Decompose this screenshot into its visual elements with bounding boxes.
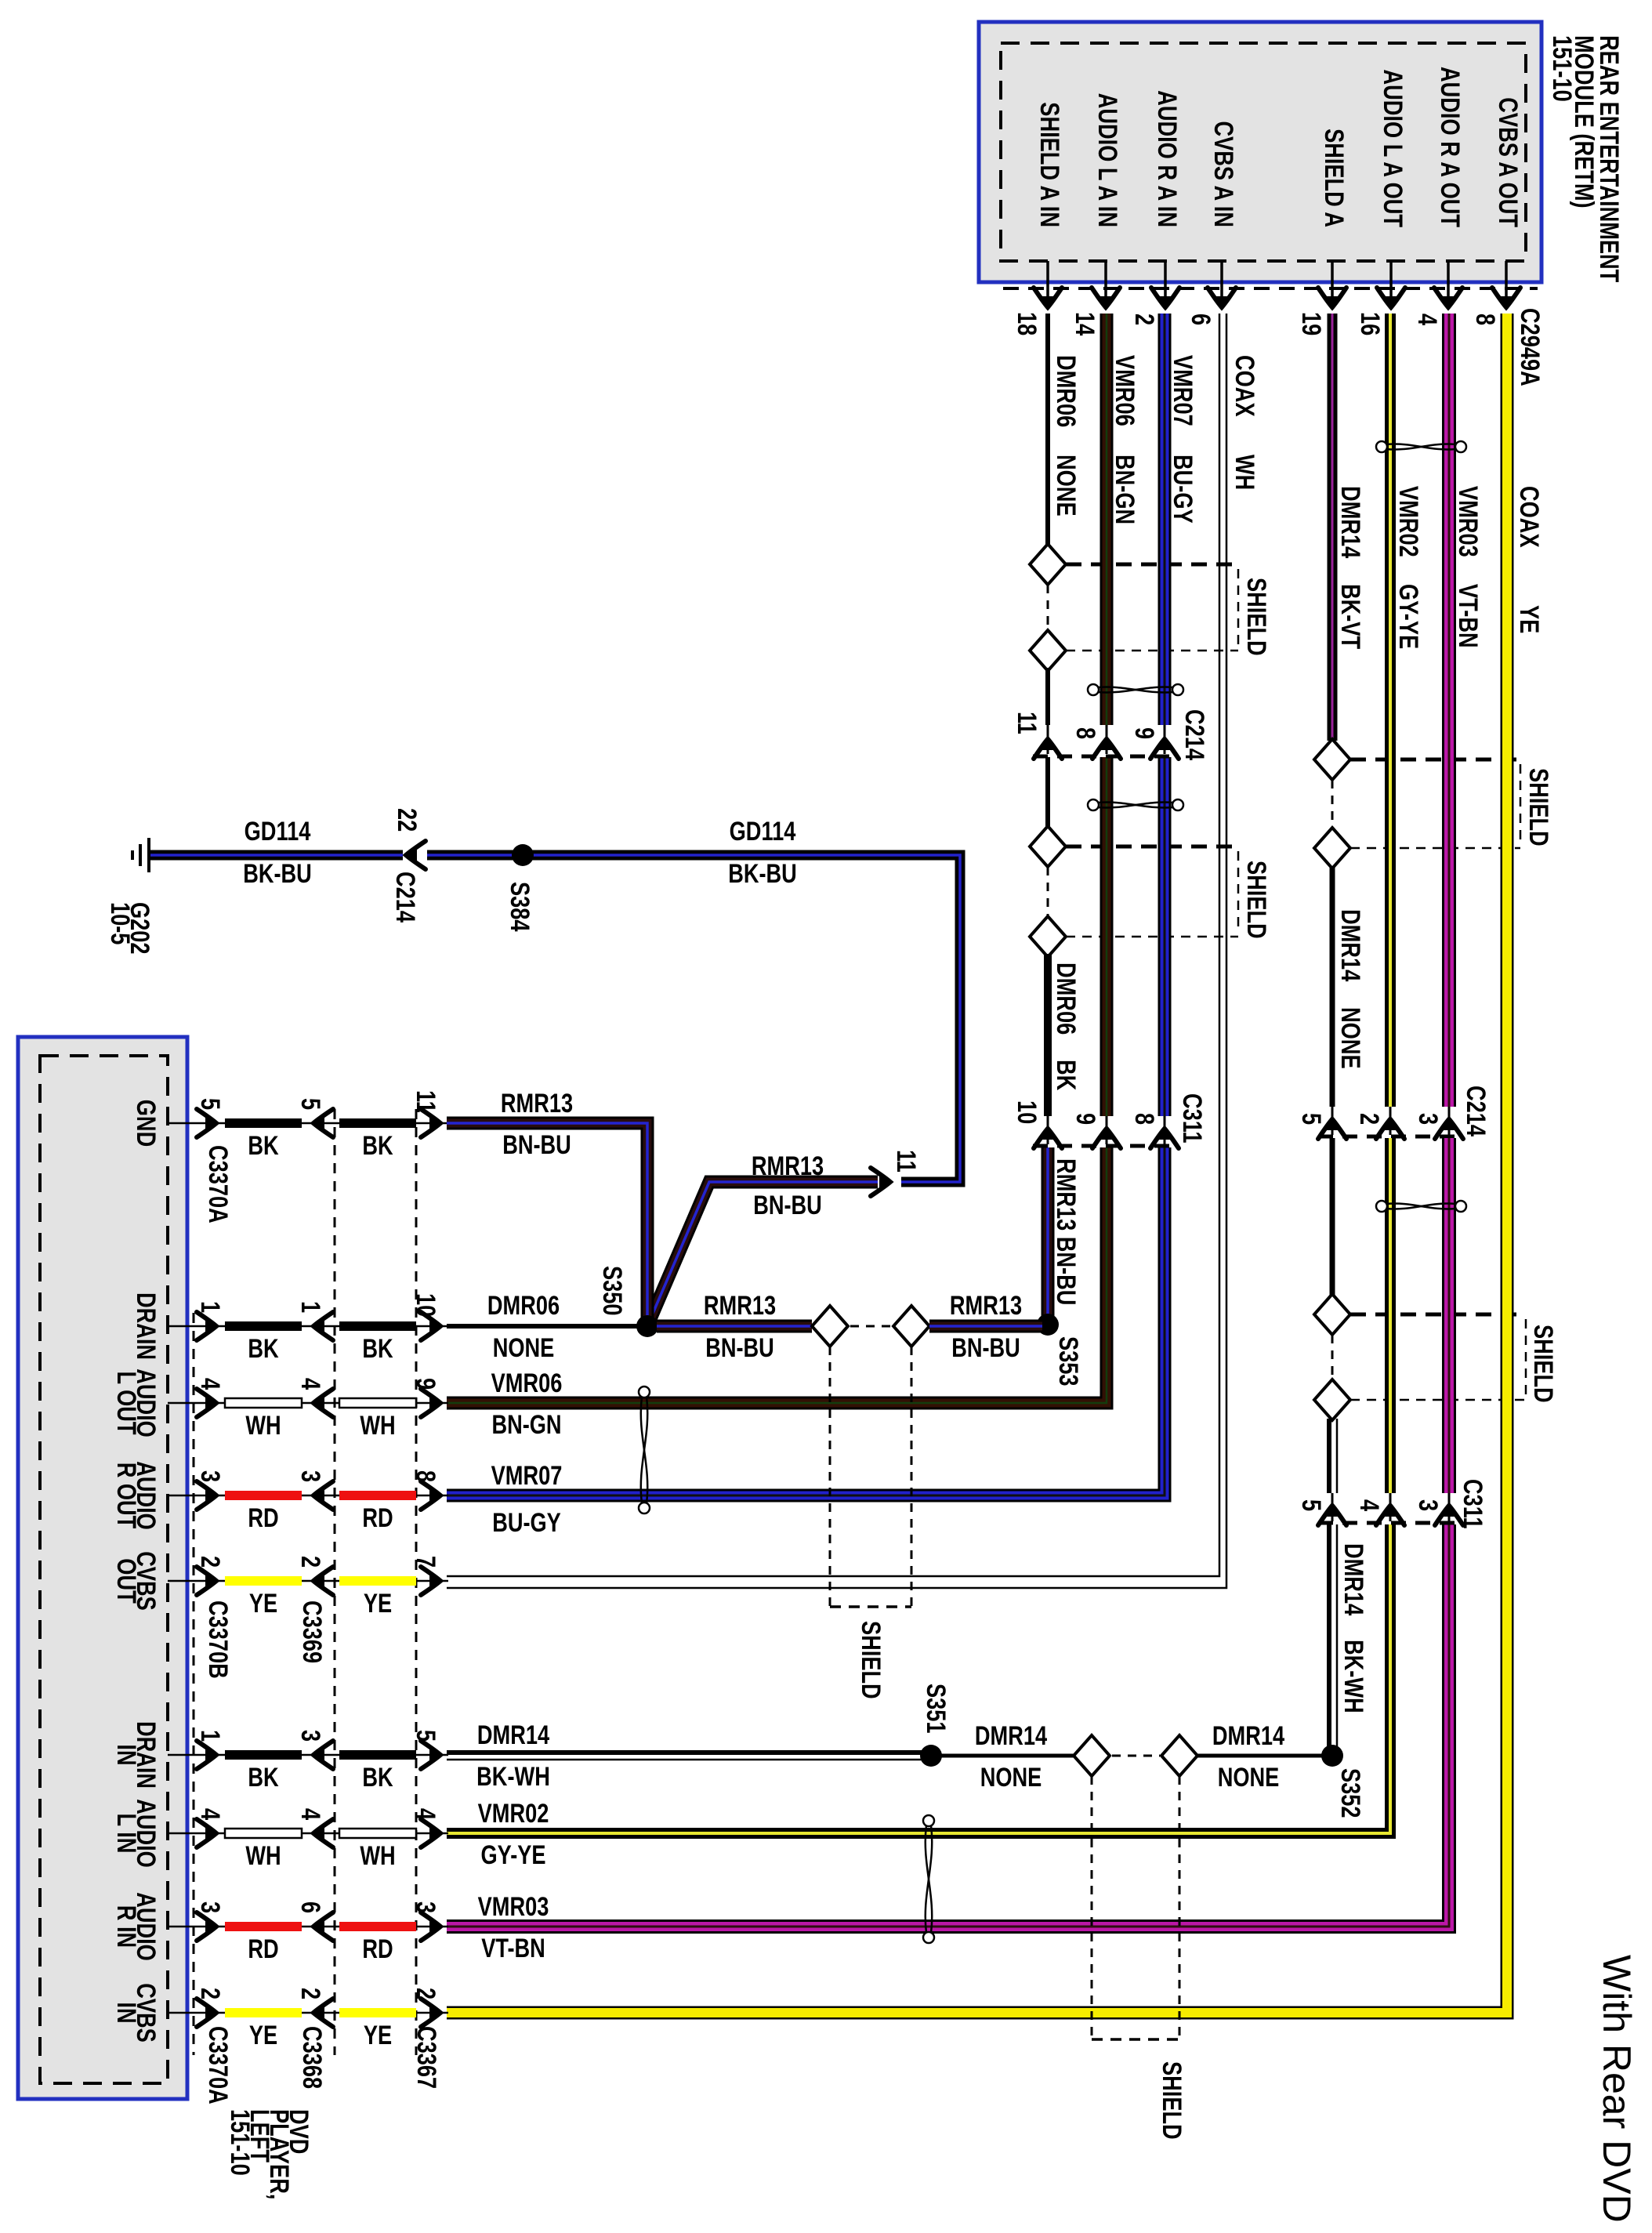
svg-text:8: 8	[1129, 1113, 1159, 1125]
svg-text:GND: GND	[131, 1100, 161, 1147]
svg-text:RMR13: RMR13	[501, 1089, 573, 1118]
svg-text:DMR14: DMR14	[975, 1721, 1047, 1751]
wire VMR02 lower run to DVD AUDIO L IN	[447, 1524, 1390, 1833]
connector arrow pin 6	[313, 1912, 333, 1941]
connector arrow pin 4	[197, 1819, 217, 1847]
svg-text:S350: S350	[597, 1266, 627, 1316]
connector arrow C311 pin10	[1047, 1116, 1049, 1144]
svg-text:AUDIO R A IN: AUDIO R A IN	[1152, 90, 1182, 227]
connector arrow C214 pin9	[1164, 725, 1166, 754]
svg-text:RD: RD	[362, 1503, 393, 1533]
wire DMR14 NONE below C214	[1330, 1138, 1335, 1296]
wire COAX YE pin8 run to DVD CVBS IN	[447, 314, 1507, 2013]
twisted pair symbol VMR06/VMR07 horizontal runs	[639, 1387, 650, 1513]
wire RMR13 BN-BU below C311	[1042, 1147, 1055, 1325]
wire VMR06 mid	[1100, 757, 1114, 1116]
wire row GND base line	[168, 1122, 448, 1125]
wire row CVBS OUT base line	[168, 1580, 448, 1582]
shield diamond DMR06 c	[1030, 826, 1066, 867]
connector arrow pin 9	[421, 1389, 441, 1417]
wire segment RD 2	[339, 1922, 416, 1931]
connector C311 dashed line (left)	[1033, 1144, 1177, 1148]
svg-text:DMR14: DMR14	[477, 1720, 549, 1750]
connector arrow pin 1	[197, 1312, 217, 1340]
svg-text:9: 9	[1071, 1113, 1100, 1125]
shield drop lines RMR13	[830, 1347, 911, 1607]
wire segment WH 2	[339, 1829, 416, 1838]
svg-text:L IN: L IN	[111, 1814, 141, 1854]
svg-text:YE: YE	[364, 2021, 392, 2050]
wire VMR03 VT-BN pin4	[1442, 314, 1456, 1107]
connector arrow pin 5	[421, 1741, 441, 1769]
connector arrow pin 3	[197, 1481, 217, 1510]
svg-text:DMR14: DMR14	[1335, 486, 1365, 558]
RETM pin stub AUDIO L A OUT	[1389, 261, 1393, 307]
svg-text:RD: RD	[248, 1503, 278, 1533]
connector arrow pin 5	[313, 1109, 333, 1137]
connector arrow pin 2	[313, 1567, 333, 1595]
svg-text:SHIELD: SHIELD	[1157, 2061, 1186, 2140]
svg-text:2: 2	[195, 1988, 225, 1999]
svg-text:7: 7	[411, 1556, 440, 1568]
wire segment WH 2	[339, 1398, 416, 1408]
svg-text:BN-BU: BN-BU	[753, 1191, 822, 1220]
svg-text:5: 5	[411, 1730, 440, 1742]
svg-text:3: 3	[195, 1470, 225, 1482]
connector arrow pin SHIELD A IN	[1034, 288, 1062, 308]
svg-text:RMR13: RMR13	[950, 1291, 1022, 1321]
svg-text:BK: BK	[362, 1763, 393, 1793]
wire DMR14 BK-WH vertical double line upper	[1327, 1419, 1331, 1493]
svg-text:YE: YE	[1514, 605, 1544, 633]
svg-text:VMR06: VMR06	[491, 1368, 563, 1398]
connector arrow pin CVBS A IN	[1208, 288, 1236, 308]
connector arrow C214 pin22	[405, 841, 426, 869]
wire VMR02 GY-YE pin16	[1385, 314, 1396, 1107]
svg-text:3: 3	[295, 1730, 325, 1742]
wire RMR13 BN-BU S350 to diamond	[657, 1320, 812, 1333]
svg-text:COAX: COAX	[1230, 355, 1259, 417]
svg-text:BK: BK	[362, 1334, 393, 1364]
svg-text:8: 8	[1071, 727, 1100, 739]
connector arrow pin 8	[421, 1481, 441, 1510]
svg-text:3: 3	[295, 1470, 325, 1482]
svg-text:WH: WH	[245, 1841, 281, 1871]
wire DMR06 mid	[1045, 668, 1050, 725]
twisted pair symbol VMR06/VMR07 upper	[1088, 684, 1183, 695]
RETM pin stub AUDIO R A OUT	[1447, 261, 1450, 307]
svg-text:DRAIN: DRAIN	[131, 1292, 161, 1360]
wire DMR06 NONE pin18 upper	[1045, 314, 1050, 547]
svg-text:5: 5	[295, 1098, 325, 1110]
svg-text:YE: YE	[364, 1589, 392, 1619]
connector arrow pin 3	[313, 1741, 333, 1769]
wire segment WH 1	[225, 1829, 302, 1838]
svg-text:11: 11	[411, 1090, 440, 1113]
svg-text:OUT: OUT	[111, 1558, 141, 1604]
svg-text:VMR02: VMR02	[1393, 486, 1423, 557]
svg-text:151-10: 151-10	[1547, 35, 1577, 102]
RETM pin stub AUDIO R A IN	[1164, 261, 1167, 307]
shield bracket DMR06 upper	[1066, 564, 1238, 651]
connector arrow pin 11	[421, 1109, 441, 1137]
svg-text:8: 8	[1470, 314, 1500, 325]
connector arrow pin AUDIO R A IN	[1151, 288, 1179, 308]
svg-text:SHIELD: SHIELD	[1241, 861, 1271, 939]
wire GD114 BK-BU left segment	[150, 850, 403, 861]
svg-text:BK-BU: BK-BU	[243, 859, 312, 889]
svg-text:BN-BU: BN-BU	[502, 1130, 571, 1160]
svg-text:SHIELD: SHIELD	[856, 1621, 886, 1699]
svg-text:VMR02: VMR02	[478, 1799, 549, 1829]
svg-text:WH: WH	[360, 1411, 395, 1441]
wire segment RD 1	[225, 1922, 302, 1931]
svg-text:RMR13: RMR13	[704, 1291, 776, 1321]
wire VMR07 BU-GY pin2 upper	[1158, 314, 1172, 725]
svg-text:BK-VT: BK-VT	[1335, 584, 1365, 649]
svg-text:WH: WH	[1230, 455, 1259, 490]
shield dashed link	[1047, 585, 1049, 632]
wire row AUDIO L IN base line	[168, 1832, 448, 1835]
wire segment BK 2	[339, 1750, 416, 1760]
shield diamond DMR06 d	[1030, 916, 1066, 957]
shield drop lines DMR14	[1092, 1776, 1179, 2039]
RETM pin stub CVBS A OUT	[1505, 261, 1508, 307]
svg-text:BK-BU: BK-BU	[728, 859, 797, 889]
wire segment BK 2	[339, 1321, 416, 1331]
wire VMR02 mid	[1385, 1138, 1396, 1493]
svg-text:3: 3	[1413, 1499, 1443, 1511]
connector arrow pin 10	[421, 1312, 441, 1340]
svg-text:DMR14: DMR14	[1335, 909, 1365, 981]
svg-text:1: 1	[295, 1301, 325, 1313]
wire VMR07 lower run to DVD AUDIO R OUT	[447, 1147, 1165, 1495]
wire segment YE 2	[339, 2008, 416, 2017]
connector arrow C311 pin5	[1331, 1493, 1334, 1521]
svg-text:VT-BN: VT-BN	[1453, 584, 1483, 648]
svg-text:NONE: NONE	[1218, 1763, 1280, 1793]
shield bracket DMR14 lower	[1350, 1314, 1526, 1400]
connector arrow C214 pin2	[1389, 1107, 1392, 1135]
wire DMR14 BK-WH vertical double line lower	[1327, 1524, 1331, 1754]
svg-text:BK: BK	[1051, 1060, 1081, 1091]
svg-text:C3370A: C3370A	[203, 2026, 233, 2104]
svg-text:VMR03: VMR03	[478, 1892, 549, 1922]
svg-text:151-10: 151-10	[225, 2109, 255, 2176]
svg-text:IN: IN	[111, 2002, 141, 2023]
wire row AUDIO R IN base line	[168, 1926, 448, 1928]
connector arrow C214 pin11	[1047, 725, 1049, 754]
svg-text:CVBS A OUT: CVBS A OUT	[1493, 97, 1523, 227]
svg-text:VMR06: VMR06	[1110, 355, 1139, 426]
wire VMR07 mid	[1158, 757, 1172, 1116]
connector arrow C214 pin3	[1448, 1107, 1451, 1135]
svg-text:BK: BK	[362, 1131, 393, 1161]
svg-text:2: 2	[411, 1988, 440, 1999]
connector arrow pin 3	[197, 1912, 217, 1941]
svg-text:YE: YE	[249, 1589, 277, 1619]
connector arrow C311 pin3	[1448, 1493, 1451, 1521]
shield diamond RMR13 b	[893, 1306, 929, 1347]
svg-text:NONE: NONE	[1335, 1007, 1365, 1069]
svg-text:11: 11	[1012, 712, 1042, 734]
svg-text:RD: RD	[362, 1934, 393, 1964]
shield diamond RMR13 a	[812, 1306, 848, 1347]
wire VMR06 BN-GN pin14 upper	[1100, 314, 1114, 725]
connector arrow pin 4	[313, 1819, 333, 1847]
wire row AUDIO R OUT base line	[168, 1495, 448, 1497]
svg-text:18: 18	[1012, 312, 1042, 335]
connector arrow pin 1	[313, 1312, 333, 1340]
svg-text:10: 10	[1012, 1100, 1042, 1124]
wire segment YE 1	[225, 2008, 302, 2017]
svg-text:DMR14: DMR14	[1212, 1721, 1284, 1751]
svg-text:With Rear DVD: With Rear DVD	[1595, 1955, 1639, 2223]
wire VMR06 lower run to DVD AUDIO L OUT	[447, 1147, 1107, 1403]
shield dashed link	[1112, 1755, 1160, 1757]
svg-text:RMR13 BN-BU: RMR13 BN-BU	[1051, 1158, 1081, 1305]
shield bracket DMR06 lower	[1066, 846, 1238, 937]
svg-text:VT-BN: VT-BN	[481, 1934, 545, 1963]
svg-text:10-5: 10-5	[105, 902, 135, 944]
shield diamond DMR14 f	[1161, 1735, 1197, 1776]
wire DMR14 NONE S351 to diamond	[940, 1754, 1074, 1758]
connector arrow pin 4	[313, 1389, 333, 1417]
wire segment RD 1	[225, 1491, 302, 1500]
wire GD114 BK-BU right segment	[427, 855, 960, 1182]
splice S353	[1037, 1314, 1059, 1336]
connector arrow C311 pin4	[1389, 1493, 1392, 1521]
connector arrow pin 4	[197, 1389, 217, 1417]
wire VMR03 mid	[1442, 1138, 1456, 1493]
svg-text:2: 2	[195, 1556, 225, 1568]
connector arrow pin 4	[421, 1819, 441, 1847]
connector arrow pin 5	[197, 1109, 217, 1137]
RETM pin stub SHIELD A	[1331, 261, 1334, 307]
svg-text:R IN: R IN	[111, 1905, 141, 1948]
shield bracket DMR14 upper	[1350, 759, 1520, 848]
svg-text:R OUT: R OUT	[111, 1463, 141, 1529]
svg-text:4: 4	[1354, 1499, 1384, 1511]
wire DMR06 below C214	[1045, 757, 1050, 829]
svg-text:AUDIO L A IN: AUDIO L A IN	[1092, 93, 1122, 227]
svg-text:SHIELD A: SHIELD A	[1319, 129, 1349, 227]
wire row AUDIO L OUT base line	[168, 1402, 448, 1405]
connector arrow pin AUDIO R A OUT	[1434, 288, 1462, 308]
svg-text:AUDIO R A OUT: AUDIO R A OUT	[1435, 67, 1465, 227]
svg-text:YE: YE	[249, 2021, 277, 2050]
svg-text:5: 5	[195, 1098, 225, 1110]
svg-text:4: 4	[195, 1378, 225, 1390]
connector arrow pin 3	[313, 1481, 333, 1510]
svg-text:NONE: NONE	[493, 1333, 555, 1363]
connector arrow C214 pin5	[1331, 1107, 1334, 1135]
wire segment BK 1	[225, 1321, 302, 1331]
svg-text:C214: C214	[1461, 1086, 1491, 1136]
shield diamond DMR06 a	[1030, 544, 1066, 585]
svg-text:BN-GN: BN-GN	[491, 1410, 561, 1440]
svg-text:4: 4	[295, 1378, 325, 1390]
svg-text:BK: BK	[248, 1334, 279, 1364]
shield diamond DMR14 c	[1314, 1294, 1350, 1335]
wire segment BK 1	[225, 1750, 302, 1760]
shield dashed link	[1047, 867, 1049, 917]
wire DMR14 BK-WH from DRAIN IN row	[447, 1750, 931, 1755]
connector arrow pin AUDIO L A OUT	[1377, 288, 1405, 308]
connector arrow pin 3	[421, 1912, 441, 1941]
svg-text:AUDIO L A OUT: AUDIO L A OUT	[1378, 70, 1407, 228]
svg-text:BN-GN: BN-GN	[1110, 455, 1139, 524]
svg-text:C3370B: C3370B	[203, 1600, 233, 1679]
svg-text:16: 16	[1355, 312, 1385, 335]
svg-text:5: 5	[1296, 1113, 1326, 1125]
RETM title text	[1547, 35, 1624, 282]
svg-text:C3368: C3368	[297, 2026, 327, 2089]
svg-text:SHIELD: SHIELD	[1528, 1325, 1558, 1403]
wire RMR13 BN-BU from GND row	[447, 1123, 647, 1326]
svg-text:GY-YE: GY-YE	[1393, 584, 1423, 649]
wire segment WH 1	[225, 1398, 302, 1408]
wire DMR06 NONE from DRAIN row	[447, 1324, 639, 1329]
svg-text:19: 19	[1296, 312, 1326, 335]
svg-text:4: 4	[411, 1808, 440, 1820]
svg-text:COAX: COAX	[1514, 486, 1544, 548]
svg-text:4: 4	[1412, 314, 1442, 325]
shield dashed link	[1331, 1335, 1334, 1379]
svg-text:11: 11	[891, 1150, 921, 1173]
svg-text:C2949A: C2949A	[1515, 308, 1545, 386]
svg-text:3: 3	[195, 1901, 225, 1913]
twisted pair symbol VMR02/VMR03 lower	[1376, 1201, 1466, 1212]
connector line C3367	[415, 1109, 418, 2055]
svg-text:2: 2	[1129, 314, 1159, 325]
connector line C3370 (box side, lower)	[193, 1313, 195, 2055]
svg-text:C3367: C3367	[411, 2026, 441, 2089]
svg-text:VMR07: VMR07	[491, 1461, 563, 1491]
connector arrow pin 2	[197, 1567, 217, 1595]
svg-text:BK: BK	[248, 1131, 279, 1161]
svg-text:9: 9	[411, 1378, 440, 1390]
svg-text:GD114: GD114	[245, 817, 311, 846]
svg-text:4: 4	[295, 1808, 325, 1820]
svg-text:6: 6	[295, 1901, 325, 1913]
svg-text:C214: C214	[1179, 709, 1209, 760]
RETM pin stub SHIELD A IN	[1046, 261, 1049, 307]
module box DVD PLAYER LEFT	[18, 1037, 187, 2099]
svg-text:6: 6	[1186, 314, 1215, 325]
wire segment BK 1	[225, 1118, 302, 1128]
splice S350	[636, 1315, 658, 1337]
connector arrow pin AUDIO L A IN	[1092, 288, 1120, 308]
svg-text:1: 1	[195, 1730, 225, 1742]
connector arrow pin 2	[421, 1999, 441, 2027]
shield diamond DMR14 b	[1314, 828, 1350, 868]
splice S351	[920, 1745, 942, 1767]
svg-text:VMR03: VMR03	[1453, 486, 1483, 557]
connector C214 dashed line (left)	[1033, 755, 1177, 759]
RETM pin stub CVBS A IN	[1220, 261, 1223, 307]
splice S352	[1321, 1745, 1343, 1767]
wire DMR06 BK thick	[1044, 954, 1052, 1116]
wire row CVBS IN base line	[168, 2012, 448, 2014]
connector arrow pin SHIELD A	[1318, 288, 1346, 308]
svg-text:C311: C311	[1458, 1479, 1487, 1529]
svg-text:SHIELD: SHIELD	[1241, 578, 1271, 656]
connector arrow pin 7	[421, 1567, 441, 1595]
svg-text:BN-BU: BN-BU	[951, 1333, 1020, 1363]
ground label G202 10-5	[105, 902, 154, 955]
shield diamond DMR14 d	[1314, 1379, 1350, 1420]
svg-text:3: 3	[411, 1901, 440, 1913]
svg-text:1: 1	[195, 1301, 225, 1313]
svg-text:NONE: NONE	[1051, 455, 1081, 517]
connector C311 dashed line (right)	[1318, 1521, 1462, 1525]
svg-text:3: 3	[1413, 1113, 1443, 1125]
wire row DRAIN IN base line	[168, 1754, 448, 1756]
svg-text:L OUT: L OUT	[111, 1371, 141, 1434]
svg-text:WH: WH	[245, 1411, 281, 1441]
svg-text:GD114: GD114	[730, 817, 796, 846]
svg-text:S353: S353	[1053, 1336, 1083, 1387]
twisted pair symbol VMR02/VMR03 upper	[1376, 441, 1466, 452]
svg-text:SHIELD A IN: SHIELD A IN	[1034, 102, 1064, 227]
connector arrow pin CVBS A OUT	[1492, 288, 1520, 308]
svg-text:2: 2	[295, 1988, 325, 1999]
DVD player title text	[225, 2109, 313, 2199]
svg-text:14: 14	[1070, 312, 1100, 335]
connector arrow C311 pin8	[1164, 1116, 1166, 1144]
svg-text:SHIELD: SHIELD	[1523, 768, 1553, 846]
svg-text:IN: IN	[111, 1744, 141, 1765]
svg-text:S351: S351	[921, 1684, 951, 1734]
ground symbol G202	[132, 838, 149, 872]
connector arrow C311 pin9	[1106, 1116, 1108, 1144]
svg-text:DMR06: DMR06	[487, 1291, 560, 1321]
svg-text:DMR06: DMR06	[1051, 962, 1081, 1035]
wire segment RD 2	[339, 1491, 416, 1500]
svg-text:BK-WH: BK-WH	[1339, 1640, 1368, 1713]
connector arrow pin 2	[313, 1999, 333, 2027]
svg-text:VMR07: VMR07	[1168, 355, 1197, 426]
connector line C3369/C3368	[334, 1109, 336, 2055]
twisted pair symbol VMR06/VMR07 lower	[1088, 799, 1183, 810]
connector arrow pin 2	[197, 1999, 217, 2027]
wire RMR13 BN-BU diagonal from S350	[647, 1182, 878, 1326]
svg-text:BN-BU: BN-BU	[705, 1333, 774, 1363]
svg-text:BU-GY: BU-GY	[492, 1508, 561, 1538]
wire COAX WH pin6 (white coax)	[447, 314, 1219, 1576]
module box REAR ENTERTAINMENT MODULE (RETM)	[979, 22, 1542, 282]
svg-text:BU-GY: BU-GY	[1168, 455, 1197, 524]
wire RMR13 BN-BU diamond to S353	[929, 1320, 1042, 1333]
connector arrow pin11	[871, 1168, 891, 1196]
shield diamond DMR14 e	[1074, 1735, 1110, 1776]
svg-text:BK: BK	[248, 1763, 279, 1793]
wire VMR03 lower run to DVD AUDIO R IN	[447, 1524, 1449, 1927]
svg-text:2: 2	[295, 1556, 325, 1568]
svg-text:GY-YE: GY-YE	[480, 1840, 545, 1870]
connector arrow C214 pin8	[1106, 725, 1108, 754]
RETM pin stub AUDIO L A IN	[1104, 261, 1107, 307]
svg-text:5: 5	[1296, 1499, 1326, 1511]
connector arrow pin 1	[197, 1741, 217, 1769]
splice S384	[512, 844, 534, 866]
twisted pair symbol VMR02/VMR03 horizontal runs	[923, 1815, 934, 1943]
svg-text:22: 22	[392, 808, 422, 832]
wire DMR14 NONE diamond to S352	[1197, 1754, 1327, 1758]
svg-text:C311: C311	[1177, 1093, 1207, 1144]
svg-text:C3370A: C3370A	[203, 1145, 233, 1223]
